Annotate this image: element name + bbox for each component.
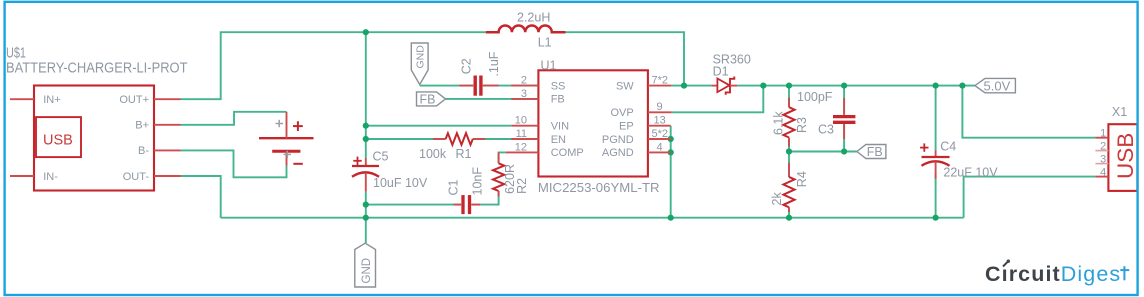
node FB flag right <box>857 145 886 159</box>
svg-text:BATTERY-CHARGER-LI-PROT: BATTERY-CHARGER-LI-PROT <box>6 61 188 77</box>
battery bottom pin <box>286 151 288 166</box>
label 620R <box>503 164 517 194</box>
capacitor C5 <box>352 157 379 192</box>
node C1 tap <box>363 202 369 208</box>
svg-text:OUT+: OUT+ <box>119 94 149 106</box>
wire C2 to pin SS <box>483 85 539 87</box>
node output / R3 <box>786 83 792 89</box>
label L1 <box>538 36 552 50</box>
wire center vertical upper (top rail to C5) <box>365 32 367 158</box>
resistor R2 <box>493 152 504 196</box>
svg-text:FB: FB <box>867 145 883 159</box>
pin B+ <box>135 120 180 132</box>
svg-text:C5: C5 <box>373 150 389 164</box>
svg-text:10nF: 10nF <box>470 167 484 196</box>
svg-text:C1: C1 <box>447 179 461 195</box>
node AGND rail <box>668 215 674 221</box>
svg-text:OUT-: OUT- <box>123 171 150 183</box>
svg-text:2k: 2k <box>770 192 784 206</box>
wire FB node row (divider to FB flag) <box>789 151 857 153</box>
wire VIN <box>366 125 512 127</box>
pin B- <box>138 145 181 157</box>
diode D1 SR360 <box>711 77 737 95</box>
battery minus mark red <box>293 163 302 165</box>
label R1 <box>456 147 472 161</box>
pin IN- <box>10 171 58 183</box>
wire R3 branch top <box>788 86 790 108</box>
resistor R1 <box>433 133 485 145</box>
pin X1-1 <box>1095 128 1108 140</box>
label C5 <box>373 150 389 164</box>
label 22uF 10V <box>943 165 998 179</box>
pin X1-2 <box>1095 141 1108 153</box>
svg-text:MIC2253-06YML-TR: MIC2253-06YML-TR <box>538 180 660 195</box>
svg-text:EN: EN <box>551 134 566 146</box>
svg-text:1: 1 <box>1100 128 1106 140</box>
pin 5*2 PGND <box>602 128 671 146</box>
svg-text:COMP: COMP <box>551 147 584 159</box>
node C3/FB <box>841 148 847 154</box>
svg-text:2: 2 <box>521 75 527 87</box>
wire C4 branch top <box>935 86 937 151</box>
node PGND <box>668 136 674 142</box>
node R4 rail <box>786 215 792 221</box>
pin 10 VIN <box>511 115 569 133</box>
svg-text:B+: B+ <box>135 120 149 132</box>
node diode cathode / OVP <box>760 83 766 89</box>
svg-text:13: 13 <box>654 115 666 127</box>
capacitor C2 <box>459 76 498 96</box>
inductor L1 <box>486 26 566 33</box>
svg-text:6.1k: 6.1k <box>771 111 785 135</box>
pin 12 COMP <box>506 141 584 159</box>
node output / C3 <box>841 83 847 89</box>
svg-text:10uF 10V: 10uF 10V <box>373 176 428 190</box>
svg-text:R2: R2 <box>515 178 529 194</box>
svg-text:OVP: OVP <box>610 107 633 119</box>
svg-text:100k: 100k <box>419 147 447 161</box>
resistor R4 <box>783 163 794 212</box>
pin OUT+ <box>119 94 180 106</box>
svg-text:2.2uH: 2.2uH <box>517 11 550 25</box>
wire center vertical lower (C5 to GND flag) <box>365 192 367 244</box>
pin X1-4 <box>1095 167 1108 179</box>
wire R3 bottom to node <box>788 138 790 152</box>
battery top pin <box>286 112 288 138</box>
label .1uF <box>487 51 501 76</box>
node C5 bottom rail <box>363 215 369 221</box>
node AGND <box>668 149 674 155</box>
svg-text:C2: C2 <box>460 58 474 74</box>
label R2 <box>515 178 529 194</box>
wire EN right of R1 <box>473 138 512 140</box>
label SR360 <box>713 53 751 67</box>
label C1 <box>447 179 461 195</box>
pin 9 OVP <box>610 101 671 119</box>
wire OUT- to bottom rail <box>180 176 220 218</box>
node top rail / center vertical <box>363 29 369 35</box>
wire R2 to C1 <box>471 191 498 205</box>
node VIN tap <box>363 123 369 129</box>
svg-text:B-: B- <box>138 145 149 157</box>
label MIC2253-06YML-TR <box>538 180 660 195</box>
svg-text:22uF 10V: 22uF 10V <box>943 165 998 179</box>
svg-text:FB: FB <box>420 92 436 106</box>
ground GND flag bottom <box>355 243 376 287</box>
battery minus mark gray <box>284 151 292 158</box>
svg-text:VIN: VIN <box>551 121 569 133</box>
node output / X1 pin1 <box>959 83 965 89</box>
svg-text:USB: USB <box>1113 133 1138 179</box>
node C4 rail <box>933 215 939 221</box>
wire EN left of R1 <box>366 138 446 140</box>
svg-text:EP: EP <box>619 121 634 133</box>
wire top rail right (L1 to SW) <box>566 32 685 85</box>
label 10uF 10V <box>373 176 428 190</box>
node output / C4 <box>933 83 939 89</box>
svg-text:R4: R4 <box>795 171 809 187</box>
svg-text:7*2: 7*2 <box>652 75 669 87</box>
label U$1 <box>6 45 26 61</box>
wire diode to 5.0V flag <box>737 85 975 87</box>
wire FB flag to pin 3 <box>446 98 539 100</box>
wire R4 bottom to rail <box>788 207 790 217</box>
pin 2 SS <box>511 75 565 93</box>
wire C3 bottom <box>843 124 845 151</box>
svg-text:R3: R3 <box>795 117 809 133</box>
wire bottom rail to X1 pin4 <box>964 177 1096 218</box>
capacitor C1 <box>454 195 481 214</box>
svg-text:3: 3 <box>521 88 527 100</box>
label C2 <box>460 58 474 74</box>
svg-text:10: 10 <box>515 115 527 127</box>
label R4 <box>795 171 809 187</box>
svg-text:5.0V: 5.0V <box>984 78 1011 93</box>
svg-text:D1: D1 <box>713 64 729 78</box>
svg-text:GND: GND <box>361 258 373 284</box>
label 2.2uH <box>517 11 550 25</box>
wire C1 branch (C5 node to C1) <box>366 204 461 206</box>
svg-text:9: 9 <box>657 101 663 113</box>
label R3 <box>795 117 809 133</box>
svg-text:GND: GND <box>415 45 427 69</box>
wire X1 pin1 (5.0V to connector) <box>962 86 1095 138</box>
svg-text:11: 11 <box>516 128 527 140</box>
wire OVP to output <box>672 86 764 113</box>
op-amp U1 box <box>538 70 648 176</box>
wire R4 top <box>788 152 790 177</box>
svg-text:X1: X1 <box>1112 105 1127 119</box>
CircuitDigest logo <box>985 260 1129 287</box>
svg-text:IN+: IN+ <box>43 94 60 106</box>
pin 13 EP <box>619 115 671 133</box>
label D1 <box>713 64 729 78</box>
wire B+ (module to battery +) <box>180 112 286 125</box>
label 6.1k <box>771 111 785 135</box>
svg-text:5*2: 5*2 <box>652 128 669 140</box>
svg-text:SS: SS <box>551 80 566 92</box>
svg-text:U1: U1 <box>541 58 557 72</box>
node FB flag left <box>417 92 446 106</box>
supply 5.0V flag <box>975 78 1016 93</box>
node EN tap <box>363 136 369 142</box>
wire SW to diode <box>671 85 711 87</box>
pin 4 AGND <box>602 141 671 159</box>
pin IN+ <box>10 94 61 106</box>
wire EP-PGND-AGND vertical to rail <box>670 126 672 218</box>
svg-text:.1uF: .1uF <box>487 51 501 76</box>
label 10nF <box>470 167 484 196</box>
wire C4 branch bottom <box>935 174 937 218</box>
node SW junction <box>681 83 687 89</box>
pin OUT- <box>123 171 181 183</box>
svg-text:PGND: PGND <box>602 134 634 146</box>
wire C3 top <box>843 86 845 115</box>
svg-text:R1: R1 <box>456 147 472 161</box>
label X1 <box>1112 105 1127 119</box>
label 100pF <box>797 90 833 104</box>
battery plus mark gray <box>276 120 284 127</box>
svg-text:4: 4 <box>1100 167 1106 179</box>
capacitor C3 <box>833 98 855 139</box>
svg-text:C4: C4 <box>940 139 956 153</box>
wire bottom GND rail <box>221 217 964 219</box>
svg-text:IN-: IN- <box>43 171 58 183</box>
label C3 <box>818 123 834 137</box>
pin 3 FB <box>511 88 564 106</box>
svg-text:CırcuitDiges: CırcuitDiges <box>985 262 1121 286</box>
svg-text:12: 12 <box>515 141 527 153</box>
pin 11 EN <box>511 128 566 146</box>
resistor R3 <box>783 98 794 147</box>
svg-text:U$1: U$1 <box>6 45 26 61</box>
svg-text:100pF: 100pF <box>797 90 833 104</box>
battery positive plate <box>259 137 314 139</box>
wire SS (GND flag to C2) <box>420 85 474 87</box>
label 2k <box>770 192 784 206</box>
ground GND flag top (SS net) <box>411 43 428 85</box>
svg-text:C3: C3 <box>818 123 834 137</box>
svg-text:3: 3 <box>1100 154 1106 166</box>
battery negative plate <box>272 150 300 153</box>
svg-text:SW: SW <box>616 80 634 92</box>
node R3/R4/FB <box>786 148 792 154</box>
label C4 <box>940 139 956 153</box>
battery plus mark red <box>293 121 303 131</box>
pin 7*2 SW <box>616 75 671 93</box>
label 100k <box>419 147 447 161</box>
capacitor C4 <box>920 143 949 178</box>
label U1 <box>541 58 557 72</box>
svg-text:FB: FB <box>551 94 565 106</box>
connector X1 <box>1108 124 1138 191</box>
pin X1-3 <box>1095 154 1108 166</box>
label BATTERY-CHARGER-LI-PROT <box>6 61 188 77</box>
module U$1 box <box>34 86 154 191</box>
wire B- (module to battery -) <box>180 150 286 177</box>
svg-text:4: 4 <box>657 141 663 153</box>
svg-text:USB: USB <box>43 133 73 149</box>
svg-text:L1: L1 <box>538 36 552 50</box>
svg-text:AGND: AGND <box>602 147 634 159</box>
wire COMP to R2 <box>499 152 506 163</box>
svg-text:2: 2 <box>1100 141 1106 153</box>
wire top rail left (OUT+ to L1) <box>180 32 486 99</box>
